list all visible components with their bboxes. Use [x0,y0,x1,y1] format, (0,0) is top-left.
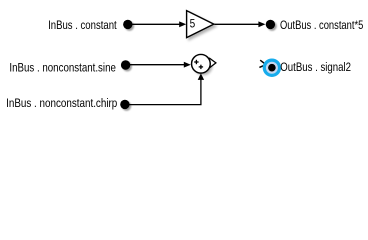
svg-text:OutBus . signal2: OutBus . signal2 [280,60,351,74]
svg-text:5: 5 [190,17,196,31]
svg-text:InBus . constant: InBus . constant [48,18,117,32]
svg-text:InBus . nonconstant.sine: InBus . nonconstant.sine [9,60,116,74]
svg-text:OutBus . constant*5: OutBus . constant*5 [280,18,363,32]
svg-text:InBus . nonconstant.chirp: InBus . nonconstant.chirp [6,96,117,110]
